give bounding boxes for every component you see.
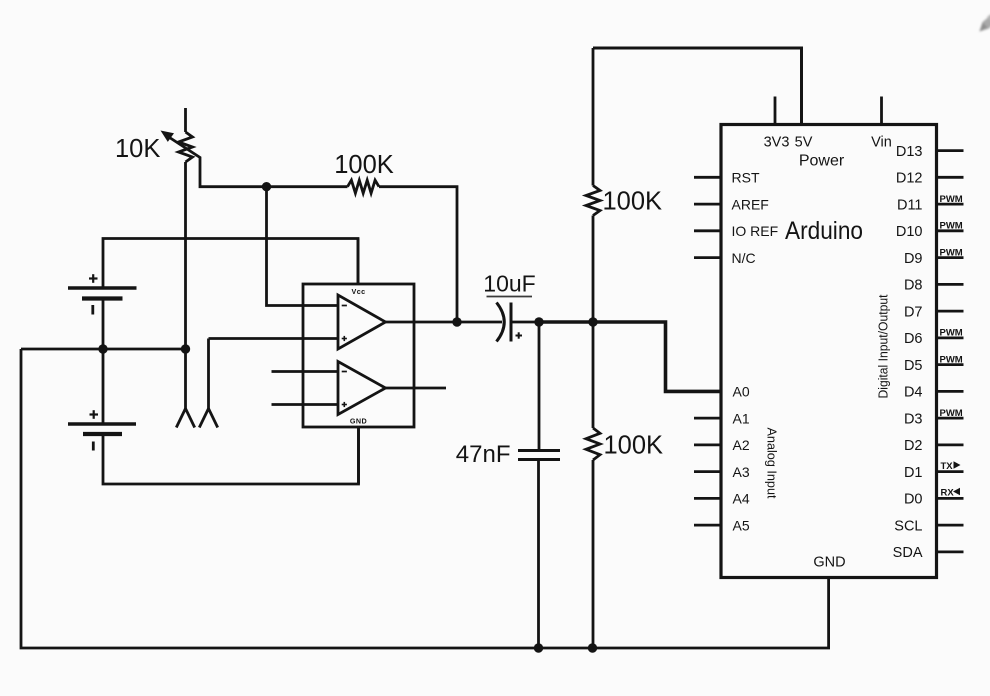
svg-text:PWM: PWM [940,408,963,419]
svg-text:A3: A3 [733,464,750,480]
svg-text:A5: A5 [733,517,750,533]
svg-text:100K: 100K [603,188,663,216]
svg-text:D8: D8 [904,278,923,294]
svg-text:PWM: PWM [940,247,963,258]
svg-text:SCL: SCL [894,518,922,534]
svg-text:Arduino: Arduino [785,217,863,245]
svg-text:D0: D0 [904,492,923,508]
svg-text:PWM: PWM [940,194,963,205]
svg-text:D3: D3 [904,411,923,427]
svg-text:RST: RST [732,170,760,186]
svg-text:PWM: PWM [940,328,963,339]
svg-text:PWM: PWM [940,354,963,365]
svg-text:SDA: SDA [893,545,923,561]
svg-text:3V3: 3V3 [764,135,790,151]
svg-text:10uF: 10uF [483,271,535,297]
svg-text:A0: A0 [733,384,750,400]
svg-text:D13: D13 [896,144,923,160]
svg-text:RX: RX [941,487,955,498]
svg-text:D6: D6 [904,331,923,347]
svg-text:D11: D11 [897,197,923,213]
svg-text:A4: A4 [733,491,750,507]
svg-text:Vcc: Vcc [352,287,366,296]
svg-text:N/C: N/C [732,250,756,266]
svg-text:Vin: Vin [871,135,892,151]
svg-text:D9: D9 [904,251,923,267]
svg-text:D12: D12 [896,171,923,187]
svg-text:Digital Input/Output: Digital Input/Output [876,294,891,398]
svg-text:GND: GND [813,555,845,571]
svg-text:10K: 10K [115,135,160,163]
svg-text:D7: D7 [904,304,923,320]
svg-text:GND: GND [350,417,367,426]
svg-text:100K: 100K [604,432,664,460]
svg-text:A1: A1 [733,410,750,426]
svg-text:D10: D10 [896,224,923,240]
svg-text:PWM: PWM [940,221,963,232]
svg-text:D2: D2 [904,438,923,454]
svg-text:D1: D1 [904,465,923,481]
svg-text:Analog Input: Analog Input [765,428,780,499]
svg-text:A2: A2 [733,437,750,453]
svg-text:AREF: AREF [732,196,769,212]
svg-text:47nF: 47nF [456,441,511,468]
svg-text:Power: Power [799,153,845,170]
svg-text:100K: 100K [334,151,394,179]
svg-text:D5: D5 [904,358,923,374]
svg-text:5V: 5V [795,135,813,151]
svg-text:IO REF: IO REF [732,223,779,239]
svg-text:D4: D4 [904,385,923,401]
svg-text:TX: TX [941,461,954,472]
